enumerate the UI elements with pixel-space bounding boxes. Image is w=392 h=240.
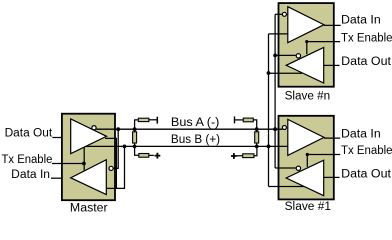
plus supply symbol right (231, 153, 237, 159)
wire through right termination resistor (256, 129, 258, 146)
junction Bus A left termination (133, 127, 137, 131)
svg-text:Data Out: Data Out (5, 127, 53, 139)
wire Bus B line (85, 145, 288, 147)
plus supply symbol left (155, 153, 161, 159)
svg-text:Bus B (+): Bus B (+) (171, 134, 220, 146)
junction slave 1 Tx Enable (306, 153, 309, 156)
IC block Master (62, 114, 115, 201)
wire Tx Enable into slave n (307, 41, 340, 43)
driver buffer master (71, 119, 107, 154)
inverting-input bubble on slave n receiver (282, 12, 286, 16)
svg-text:Data Out: Data Out (341, 168, 392, 180)
svg-text:Tx Enable: Tx Enable (2, 154, 53, 166)
svg-text:Tx Enable: Tx Enable (341, 145, 392, 157)
receiver buffer master (71, 160, 107, 195)
wire master driver output down to receiver input net (105, 138, 116, 188)
junction slave n Tx Enable (305, 40, 308, 43)
wire slave 1 Tx Enable stub to driver enable (306, 155, 308, 167)
rail bar right (234, 116, 236, 123)
wire slave n receiver input from Bus B riser (269, 33, 288, 35)
wire rail to right bias resistor (235, 119, 244, 121)
driver buffer slave 1 (286, 160, 324, 196)
wire slave n Tx Enable stub to driver enable (306, 42, 308, 55)
resistor left termination (133, 132, 137, 143)
inverting-output bubble on master driver (92, 126, 96, 130)
junction Bus A slave riser (273, 127, 277, 131)
svg-text:Tx Enable: Tx Enable (341, 32, 392, 44)
wire slave n driver inverting output to Bus A riser (275, 54, 296, 56)
junction Bus B left termination (133, 145, 137, 149)
wire Bus A line (96, 128, 282, 130)
resistor right termination (255, 132, 259, 143)
junction Bus A at master (116, 127, 120, 131)
receiver buffer slave n (288, 7, 324, 43)
junction Bus B at master (123, 145, 127, 149)
wire master receiver inverting input to Bus A (113, 129, 118, 168)
wire plus supply to right bias resistor (237, 155, 243, 157)
resistor left Bus B bias (139, 154, 149, 158)
wire Data In from master receiver output (51, 177, 62, 179)
receiver buffer slave 1 (288, 119, 324, 155)
junction Bus A right termination (255, 127, 259, 131)
wire through left termination resistor (134, 129, 136, 146)
junction slave n driver inverting output (273, 54, 277, 58)
resistor right Bus B bias (243, 154, 254, 158)
wire Data In from slave 1 receiver (324, 137, 340, 139)
svg-text:Data In: Data In (11, 169, 50, 181)
IC block Slave #1 (279, 116, 334, 200)
wire left bias resistor to plus supply (149, 154, 154, 156)
wire Tx Enable into slave 1 (307, 154, 340, 156)
riser Bus A to slaves (274, 14, 276, 168)
resistor right Bus A bias (243, 118, 253, 122)
inverting-output bubble on slave n driver (296, 54, 300, 58)
wire slave 1 driver output to Bus B riser (269, 186, 305, 188)
svg-text:Master: Master (70, 202, 108, 212)
svg-text:Slave #n: Slave #n (285, 90, 331, 102)
resistor left Bus A bias (138, 118, 149, 121)
wire left bias resistor lead to Bus A (135, 120, 139, 129)
wire master Tx Enable stub to driver and receiver enables (83, 147, 85, 170)
wire right bias resistor to Bus B (254, 146, 257, 155)
driver buffer slave n (286, 48, 324, 84)
wire slave n receiver inverting input from Bus A riser (275, 13, 282, 15)
svg-text:Bus A (-): Bus A (-) (171, 117, 220, 129)
inverting-output bubble on slave 1 driver (296, 166, 300, 170)
svg-text:Data Out: Data Out (341, 56, 392, 68)
rail bar left (156, 117, 158, 124)
wire Data In from slave n receiver (324, 24, 341, 26)
wire Tx Enable into master (52, 163, 84, 165)
wire slave n driver output to Bus B riser (269, 72, 303, 74)
IC block Slave #n (279, 3, 334, 87)
svg-text:Slave #1: Slave #1 (285, 201, 331, 212)
wire left bias resistor lead to Bus B (135, 146, 139, 155)
junction master Tx Enable (82, 162, 86, 166)
svg-text:Data In: Data In (341, 14, 381, 26)
wire slave 1 driver inverting output to Bus A riser (275, 167, 296, 169)
wire Data Out to slave 1 driver input (324, 176, 340, 178)
riser Bus B to slaves (268, 34, 270, 187)
inverting-input bubble on master receiver (109, 166, 113, 170)
wire master receiver input to Bus B (107, 146, 125, 188)
wire Data Out to master driver input (52, 137, 62, 139)
wire right bias resistor to Bus A (253, 120, 256, 129)
svg-text:Data In: Data In (341, 128, 381, 140)
inverting-input bubble on slave 1 receiver (282, 126, 286, 130)
junction Bus B right termination (255, 145, 259, 149)
wire Data Out to slave n driver input (324, 64, 340, 66)
junction slave n driver output (267, 71, 271, 75)
junction Bus B slave riser (267, 145, 271, 149)
wire left bias resistor to rail (149, 119, 157, 121)
